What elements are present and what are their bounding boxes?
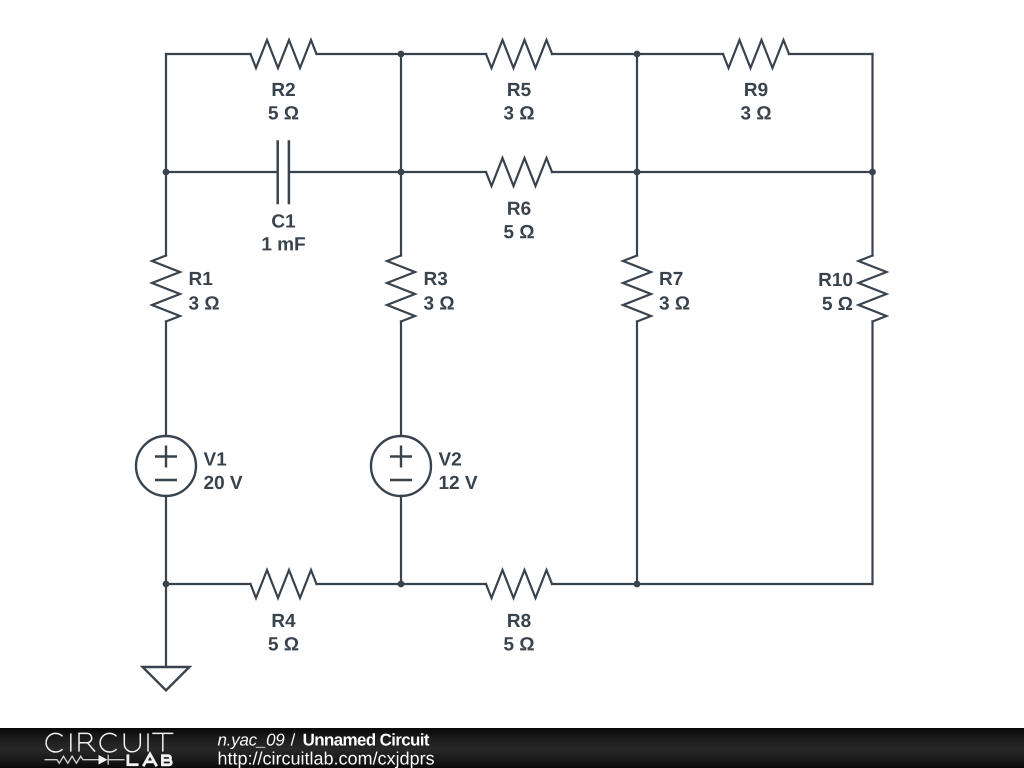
logo letter I bbox=[147, 733, 149, 751]
wire top rail segment 2 bbox=[317, 53, 487, 55]
resistor R5 bbox=[486, 40, 552, 68]
value V1 bbox=[204, 476, 242, 490]
wire bottom rail left segment bbox=[166, 583, 251, 585]
logo letter U bbox=[124, 733, 140, 751]
label R10 bbox=[819, 273, 852, 287]
resistor R9 bbox=[723, 40, 789, 68]
logo letter L bbox=[128, 754, 139, 764]
wire mid rail left segment bbox=[166, 171, 277, 173]
resistor R3 bbox=[387, 256, 415, 322]
voltage source V2 bbox=[371, 436, 431, 496]
logo diode triangle bbox=[99, 755, 108, 765]
logo resistor-diode squiggle bbox=[45, 755, 125, 765]
wire right rail upper bbox=[871, 54, 873, 256]
node rail3 bottom bbox=[634, 581, 641, 588]
label R8 bbox=[508, 614, 530, 628]
label C1 bbox=[272, 214, 295, 228]
resistor R6 bbox=[486, 158, 552, 186]
wire rail2 upper bbox=[400, 54, 402, 256]
wire left rail upper bbox=[165, 54, 167, 256]
value R7 bbox=[659, 296, 689, 310]
resistor R10 bbox=[859, 256, 887, 322]
node at left mid rail bbox=[163, 169, 170, 176]
wire right rail lower bbox=[871, 322, 873, 585]
node rail3 top bbox=[634, 51, 641, 58]
resistor R2 bbox=[251, 40, 317, 68]
value R6 bbox=[504, 225, 534, 239]
value V2 bbox=[440, 476, 478, 489]
wire top rail segment 3 bbox=[552, 53, 723, 55]
wire bottom rail right segment bbox=[552, 583, 873, 585]
resistor R4 bbox=[251, 570, 317, 598]
logo letter C bbox=[46, 733, 62, 752]
capacitor C1 bbox=[278, 142, 289, 204]
value R3 bbox=[424, 296, 454, 310]
wire top rail left segment bbox=[166, 53, 251, 55]
wire rail3 lower bbox=[636, 322, 638, 585]
node left rail bottom bbox=[163, 581, 170, 588]
footer name italic bbox=[218, 734, 285, 749]
label R5 bbox=[508, 83, 530, 96]
node rail2 mid bbox=[398, 169, 405, 176]
label R2 bbox=[273, 83, 295, 96]
wire mid rail segment 2 bbox=[290, 171, 486, 173]
wire rail2 lower bbox=[400, 496, 402, 584]
resistor R1 bbox=[152, 256, 180, 322]
logo letter B bbox=[162, 754, 171, 766]
ground bbox=[143, 667, 190, 690]
wire left rail lower to ground bbox=[165, 496, 167, 667]
label V2 bbox=[439, 452, 461, 465]
logo letter T bbox=[152, 733, 173, 751]
resistor R7 bbox=[623, 256, 651, 322]
logo letter I bbox=[70, 733, 72, 751]
resistor R8 bbox=[486, 570, 552, 598]
wire left rail to V1 bbox=[165, 322, 167, 437]
node rail2 top bbox=[398, 51, 405, 58]
wire rail3 upper bbox=[636, 54, 638, 256]
footer url bbox=[219, 752, 434, 768]
value R9 bbox=[741, 106, 771, 120]
wire mid rail right segment bbox=[552, 171, 873, 173]
label R9 bbox=[745, 83, 767, 97]
footer slash bbox=[291, 733, 296, 746]
node rail3 mid bbox=[634, 169, 641, 176]
node rail2 bottom bbox=[398, 581, 405, 588]
logo letter R bbox=[79, 733, 95, 751]
logo letter C bbox=[100, 733, 116, 752]
label V1 bbox=[204, 452, 227, 465]
value R10 bbox=[823, 297, 853, 311]
wire top rail right segment bbox=[789, 53, 873, 55]
label R4 bbox=[273, 614, 296, 627]
label R3 bbox=[425, 272, 447, 286]
value R2 bbox=[269, 106, 299, 120]
value R1 bbox=[189, 296, 219, 310]
value R8 bbox=[504, 637, 534, 651]
wire bottom rail segment 2 bbox=[317, 583, 487, 585]
footer title bold bbox=[304, 733, 430, 746]
footer bar bbox=[0, 728, 1024, 768]
value C1 bbox=[263, 237, 306, 250]
logo letter A bbox=[143, 754, 157, 766]
label R6 bbox=[508, 202, 530, 216]
value R4 bbox=[269, 637, 299, 651]
value R5 bbox=[504, 106, 534, 120]
node right rail mid bbox=[869, 169, 876, 176]
label R1 bbox=[190, 272, 213, 285]
voltage source V1 bbox=[136, 436, 196, 496]
label R7 bbox=[660, 272, 682, 285]
wire rail2 to V2 bbox=[400, 322, 402, 437]
